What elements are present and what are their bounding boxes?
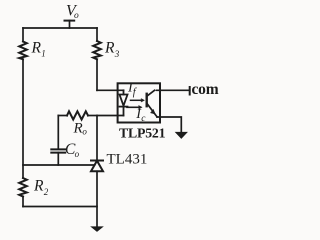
wire top rail Vo	[23, 27, 97, 29]
transistor Q1 collector	[147, 90, 155, 96]
label If	[127, 81, 138, 98]
transistor Q1 base bar	[145, 94, 147, 106]
svg-text:TLP521: TLP521	[119, 126, 166, 141]
wire bottom rail	[23, 206, 97, 208]
svg-text:2: 2	[44, 187, 49, 197]
wire emitter to ground	[157, 117, 181, 133]
wire collector to com	[157, 89, 190, 91]
label Vo	[66, 2, 79, 21]
label R3	[104, 39, 120, 59]
svg-text:o: o	[75, 149, 80, 159]
label R1	[31, 39, 46, 58]
label Co	[65, 141, 80, 159]
wire Ro right lead	[88, 115, 97, 117]
wire right rail top	[96, 28, 98, 41]
light arrow upper	[131, 99, 145, 102]
svg-text:R: R	[33, 177, 44, 194]
wire reference (divider tap)	[23, 164, 95, 166]
svg-text:3: 3	[114, 49, 120, 59]
node com terminal tick	[189, 87, 191, 95]
ground com side	[176, 132, 187, 138]
wire TL431 anode to ground	[96, 171, 98, 227]
wire Co top lead	[57, 116, 59, 150]
resistor Ro	[67, 111, 88, 119]
wire right rail to opto	[96, 59, 98, 90]
svg-text:o: o	[74, 11, 79, 21]
transistor Q1 emitter with arrow	[147, 103, 157, 117]
svg-text:com: com	[192, 81, 219, 98]
svg-text:R: R	[31, 39, 42, 56]
label R2	[33, 177, 49, 196]
ground main	[91, 227, 102, 232]
svg-text:TL431: TL431	[107, 152, 148, 168]
svg-text:R: R	[104, 39, 115, 56]
label Ic	[135, 107, 146, 124]
optocoupler U2 TLP521 box	[118, 83, 160, 122]
wire TL431 cathode drop	[96, 116, 98, 161]
wire Co bottom lead	[57, 153, 59, 165]
wire LED anode	[97, 89, 124, 91]
svg-text:1: 1	[41, 49, 46, 59]
capacitor Co	[51, 149, 65, 152]
wire left rail middle	[22, 59, 24, 178]
svg-text:R: R	[73, 121, 83, 137]
resistor R2	[19, 178, 27, 197]
wire Ro left lead	[58, 115, 67, 117]
node Vo terminal	[65, 21, 75, 28]
wire left rail lower	[22, 197, 24, 207]
resistor R1	[19, 42, 27, 60]
svg-text:o: o	[82, 127, 87, 137]
resistor R3	[93, 41, 101, 59]
wire left rail upper	[22, 28, 24, 42]
label Ro	[73, 121, 88, 137]
light arrow lower	[127, 106, 142, 110]
wire LED cathode / compensation line	[97, 115, 124, 117]
regulator U1 TL431	[91, 161, 103, 172]
LED D1 inside opto	[120, 90, 128, 115]
